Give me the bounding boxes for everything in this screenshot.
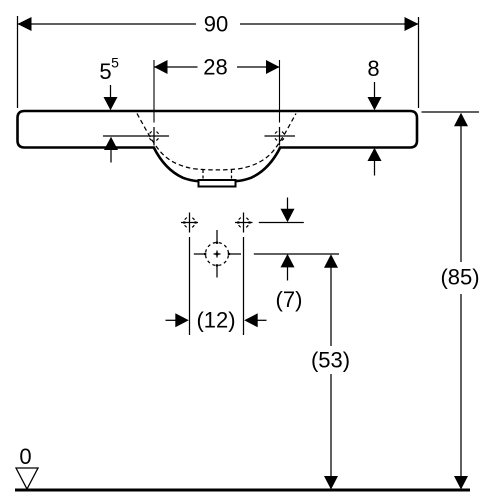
dimension 85 line: [460, 125, 462, 478]
dimension 12 line left with arrow: [166, 319, 177, 321]
basin inner rim dashed curve: [137, 114, 296, 170]
dimension 85 down arrow: [454, 476, 468, 490]
dimension 53 up arrow: [324, 254, 338, 268]
fixing hole left crosshair: [181, 213, 198, 233]
washbasin slab outline: [18, 111, 418, 148]
dimension 7 up arrow: [281, 254, 295, 268]
dimension 7 down arrow: [287, 198, 289, 211]
dimension 90 extension line left: [17, 16, 19, 108]
drain flange: [199, 180, 236, 187]
svg-text:(53): (53): [311, 348, 350, 373]
fixing hole right crosshair: [235, 213, 253, 233]
dimension 5.5 reference line: [103, 135, 169, 137]
drain hole crosshair: [194, 230, 241, 278]
dimension 28 arrow right: [266, 60, 280, 74]
dimension 53 down arrow: [324, 476, 338, 490]
dimension 5.5 down arrow: [110, 85, 112, 98]
svg-text:(7): (7): [276, 287, 303, 312]
svg-text:90: 90: [204, 12, 228, 37]
dimension 28 extension line right: [279, 60, 281, 123]
dimension 90 extension line right: [418, 17, 420, 108]
dimension 8 down arrow: [374, 82, 376, 98]
svg-text:(85): (85): [440, 265, 479, 290]
tap hole left crosshair: [153, 127, 155, 146]
dimension 90 line: [18, 23, 419, 25]
dimension 7 upper reference line: [259, 222, 304, 224]
dimension 90 arrow right: [405, 17, 419, 31]
dimension 53 line: [330, 266, 332, 478]
dimension 28 line: [154, 66, 280, 68]
dimension 90 arrow left: [18, 17, 32, 31]
drain hole dashed circle: [206, 243, 229, 266]
svg-text:8: 8: [367, 56, 379, 81]
svg-text:(12): (12): [196, 308, 235, 333]
dimension 5.5 up arrow: [104, 137, 118, 150]
basin bowl outline left: [154, 147, 199, 181]
basin bowl outline right: [236, 147, 281, 181]
dimension 85 up arrow: [454, 113, 468, 127]
svg-text:5: 5: [99, 59, 111, 84]
svg-text:28: 28: [203, 55, 227, 80]
floor line: [15, 489, 470, 492]
dimension 12 line right with arrow: [244, 313, 258, 327]
dimension 7 lower reference line: [254, 253, 339, 255]
dimension 28 extension line left: [153, 60, 155, 123]
svg-text:5: 5: [111, 55, 119, 71]
dimension 8 up arrow: [368, 148, 382, 161]
svg-text:0: 0: [19, 444, 31, 469]
fixing hole right extension line: [243, 237, 245, 335]
drain opening dashed edge right: [231, 170, 233, 180]
fixing hole left extension line: [189, 237, 191, 335]
tap hole right crosshair: [265, 135, 296, 137]
dimension 85 reference line: [422, 111, 480, 113]
drain opening dashed edge left: [202, 170, 204, 180]
dimension 28 arrow left: [154, 60, 168, 74]
datum triangle: [16, 468, 38, 489]
